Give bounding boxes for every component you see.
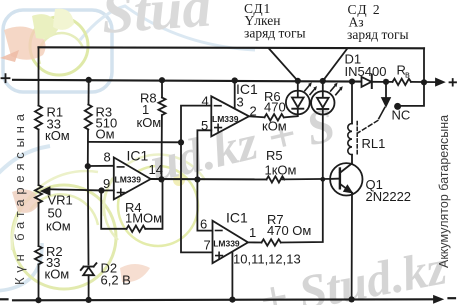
svg-text:Күн батареясына: Күн батареясына <box>12 109 27 285</box>
svg-text:4: 4 <box>202 94 209 109</box>
junction zener anode on - rail <box>86 297 92 303</box>
svg-text:1МОм: 1МОм <box>125 211 162 226</box>
junction battery + output node <box>421 79 427 85</box>
junction LED CД1 anode on + rail <box>295 78 301 84</box>
minus terminal output arrow <box>434 296 442 302</box>
svg-text:кОм: кОм <box>45 267 70 282</box>
svg-text:LM339: LM339 <box>212 114 239 124</box>
resistor R1 <box>35 106 42 130</box>
resistor R6 <box>265 114 284 121</box>
svg-text:10,11,12,13: 10,11,12,13 <box>233 252 301 267</box>
wire ref line <box>88 141 181 143</box>
wire <box>372 81 393 83</box>
wire + rail <box>13 80 361 82</box>
op-amp U1B triangle <box>114 157 151 199</box>
wire <box>411 81 436 83</box>
svg-text:9: 9 <box>103 176 110 191</box>
svg-text:кОм: кОм <box>45 128 70 143</box>
svg-text:заряд тогы: заряд тогы <box>244 26 306 41</box>
junction switch common on + rail <box>383 79 389 85</box>
wire <box>38 130 40 186</box>
svg-text:LM339: LM339 <box>213 239 240 249</box>
junction base node / LED2 cathode / R7 <box>320 177 325 182</box>
op-amp U1A triangle <box>211 96 249 136</box>
plus terminal input top-left <box>2 74 10 82</box>
svg-text:IN5400: IN5400 <box>345 64 387 79</box>
junction LED CД2 anode on + rail <box>320 78 326 84</box>
minus terminal input bottom-left <box>1 298 8 300</box>
wire to collector <box>351 155 353 164</box>
wire IC V+ pin3 <box>234 81 236 109</box>
svg-text:кОм: кОм <box>46 219 71 234</box>
wire out2 line to base <box>151 178 267 180</box>
svg-text:1: 1 <box>249 225 256 240</box>
svg-text:в: в <box>405 70 410 80</box>
svg-text:7: 7 <box>204 238 211 253</box>
junction IC1 ground on - rail <box>229 297 235 303</box>
NC contact <box>394 103 401 110</box>
svg-text:5: 5 <box>201 118 208 133</box>
zener D2 <box>81 263 97 270</box>
wire <box>145 179 162 228</box>
diode D1 <box>362 77 372 87</box>
junction wiper / pin 9 / R4 <box>98 187 104 193</box>
transistor Q1 <box>330 163 362 195</box>
wire left rail top <box>38 47 40 105</box>
resistor RB <box>393 79 412 85</box>
resistor R8 <box>159 98 166 116</box>
resistor R5 <box>267 176 285 182</box>
wire emitter down <box>351 193 353 300</box>
caption СД1 <box>244 1 409 42</box>
wire pin8 <box>88 165 114 167</box>
junction R8 top on + rail <box>159 77 165 83</box>
svg-text:кОм: кОм <box>137 115 162 130</box>
switch arm <box>379 108 385 119</box>
junction relay coil on + rail <box>349 79 355 85</box>
svg-text:R5: R5 <box>266 148 283 163</box>
wire relay branch <box>351 82 353 124</box>
diag wire LED1 <box>269 48 298 81</box>
svg-text:470: 470 <box>264 100 286 115</box>
svg-text:14: 14 <box>149 162 163 177</box>
resistor R3 <box>85 105 92 130</box>
junction output line to pin5/pin6 riser <box>194 176 200 182</box>
wire R4 loop <box>101 191 126 229</box>
svg-text:IC1: IC1 <box>226 210 248 226</box>
wire <box>88 275 90 300</box>
wire riser to base node <box>281 179 323 242</box>
wire out1 to R6 <box>249 116 265 117</box>
wire right corner down <box>398 48 424 106</box>
svg-text:6: 6 <box>200 217 207 232</box>
svg-text:3: 3 <box>237 95 244 110</box>
svg-text:2N2222: 2N2222 <box>366 189 412 204</box>
wire <box>38 264 40 300</box>
junction zener reference node / pin 8 <box>85 163 91 169</box>
svg-text:IC1: IC1 <box>127 148 149 164</box>
wire pin9 <box>102 189 114 191</box>
junction output 14 / R8 / R4 <box>158 176 164 182</box>
wire pin4 <box>181 106 213 253</box>
LED D3 (СД1) <box>286 91 310 115</box>
watermark logo bottom-left <box>0 146 205 291</box>
junction divider bottom on - rail <box>35 297 41 303</box>
junction R3 top on + rail <box>86 77 92 83</box>
svg-text:Stud: Stud <box>99 0 214 46</box>
svg-text:заряд тогы: заряд тогы <box>347 27 409 42</box>
svg-text:Ом: Ом <box>96 127 115 142</box>
svg-text:LM339: LM339 <box>115 175 142 185</box>
resistor R2 <box>35 246 42 264</box>
resistor R7 <box>262 239 281 245</box>
potentiometer VR1 <box>35 185 42 203</box>
svg-text:RL1: RL1 <box>362 136 386 151</box>
switch branch <box>385 82 387 98</box>
svg-text:Аккумулятор батареясына: Аккумулятор батареясына <box>437 115 451 268</box>
wire <box>161 115 163 179</box>
wire bottom rail <box>13 299 433 300</box>
LED D4 (СД2) <box>311 91 334 114</box>
wire R8 branch <box>161 80 163 97</box>
wire <box>282 178 330 181</box>
svg-text:2: 2 <box>250 104 257 119</box>
plus terminal output arrow <box>436 79 444 85</box>
wire top rail <box>39 47 425 48</box>
diag wire LED2 <box>323 49 348 82</box>
junction IC1 pin 3 supply on + rail <box>232 77 238 83</box>
op-amp U1C triangle <box>213 221 249 264</box>
resistor R4 <box>127 226 146 232</box>
wire out3 to R7 <box>248 241 262 243</box>
wire IC ground <box>231 253 233 300</box>
svg-text:NC: NC <box>392 108 411 123</box>
wire R3 branch <box>88 80 90 105</box>
wire <box>284 114 298 117</box>
junction reference line to pin4/pin7 riser <box>178 139 184 145</box>
svg-text:кОм: кОм <box>262 119 287 134</box>
wire <box>87 130 90 265</box>
svg-text:1кОм: 1кОм <box>265 163 297 178</box>
wire pin5 <box>197 130 212 230</box>
svg-text:470 Ом: 470 Ом <box>267 223 311 238</box>
junction Q1 emitter on - rail <box>349 296 355 302</box>
watermark logo top-left <box>0 6 255 92</box>
svg-text:8: 8 <box>104 150 111 165</box>
wire <box>38 203 40 246</box>
svg-text:6,2 В: 6,2 В <box>101 273 131 288</box>
relay coil RL1 <box>348 123 352 154</box>
